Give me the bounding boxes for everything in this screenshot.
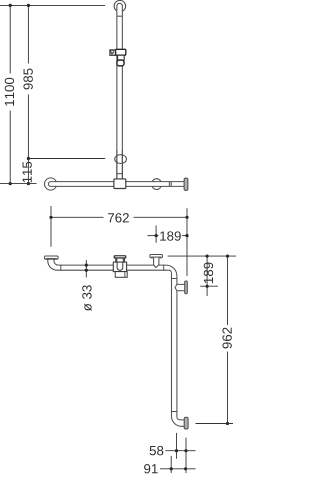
dimension 189 right label	[204, 263, 213, 284]
witness line left flange	[50, 206, 52, 247]
bar joint ticks right	[168, 181, 170, 186]
diameter 33 leader	[85, 260, 88, 278]
rail tube over ring	[116, 150, 118, 179]
bar ring right	[152, 179, 162, 190]
corner bend outer	[166, 265, 177, 276]
extension line bottom (bar end axis)	[196, 423, 234, 425]
shower rail tube	[117, 3, 123, 179]
extension line bottom-left (bar axis)	[0, 183, 37, 185]
joint tick above bottom bend	[171, 411, 177, 413]
bottom bend inner	[177, 417, 184, 420]
joint tick after left bend	[60, 265, 62, 271]
right support flange plate	[185, 281, 188, 294]
rail lower ring	[115, 155, 127, 164]
dimension 58 line	[166, 449, 196, 452]
witness line wall bottom	[185, 438, 187, 473]
joint tick descending tube	[171, 278, 177, 280]
slider ear block	[110, 50, 116, 55]
wall flange right (elevation)	[184, 178, 188, 190]
dimension 985 label	[23, 68, 32, 89]
shower rail top circle	[114, 0, 126, 12]
slider main block	[116, 49, 126, 55]
slider stem	[118, 55, 125, 60]
dimension 91 label	[144, 464, 158, 473]
descending tube	[171, 273, 173, 417]
rail clamp block (plan)	[113, 262, 126, 272]
plan tube horizontal	[58, 264, 166, 266]
dimension 762 label	[108, 213, 129, 222]
rail joint tick top	[117, 15, 123, 17]
dimension 58 label	[150, 446, 164, 455]
diameter 33 label	[82, 285, 92, 311]
slider ear button	[111, 51, 114, 53]
dimension 115 line	[27, 159, 30, 186]
left flange neck and bend	[48, 259, 57, 270]
extension line top (rail top)	[0, 4, 105, 6]
left flange plate (plan)	[45, 256, 59, 259]
right extension line (wall top)	[168, 255, 236, 257]
bottom bend outer	[172, 416, 185, 426]
extension line mid (ring level)	[28, 158, 105, 160]
dimension 962 label	[222, 328, 231, 349]
dimension 962 line	[226, 255, 229, 426]
rail mount lower block	[115, 272, 127, 278]
witness line tube left edge	[170, 456, 172, 473]
dimension 189 top line	[148, 234, 189, 237]
witness line corner support	[155, 225, 157, 242]
corner support neck with chevron	[154, 258, 159, 268]
dimension 762 line	[49, 216, 188, 219]
witness line wall corner	[186, 208, 188, 276]
bottom wall flange plate	[184, 417, 188, 429]
rail mount plate (plan)	[114, 255, 126, 258]
slider ear dot	[111, 53, 113, 55]
dimension 985 line	[27, 4, 30, 160]
junction block (cross fitting)	[114, 179, 126, 189]
dimension 189 right line	[200, 255, 218, 296]
rail clamp U	[117, 262, 123, 270]
corner bend inner	[169, 270, 172, 273]
shower head holder	[117, 60, 124, 66]
joint tick horizontal before corner	[163, 265, 165, 271]
rail mount posts	[115, 258, 117, 262]
horizontal grab bar	[48, 182, 184, 187]
dimension 1100 label	[5, 78, 14, 106]
dimension 1100 line	[9, 4, 12, 185]
rail collar tick	[117, 173, 123, 175]
corner support flange plate	[150, 255, 163, 258]
bar end cap circle left	[45, 178, 57, 190]
witness line tube right edge	[176, 433, 178, 459]
dimension 115 label	[23, 162, 32, 183]
right support stem with chevron	[175, 284, 185, 290]
dimension 189 top label	[160, 231, 181, 240]
dimension 91 line	[160, 467, 196, 470]
